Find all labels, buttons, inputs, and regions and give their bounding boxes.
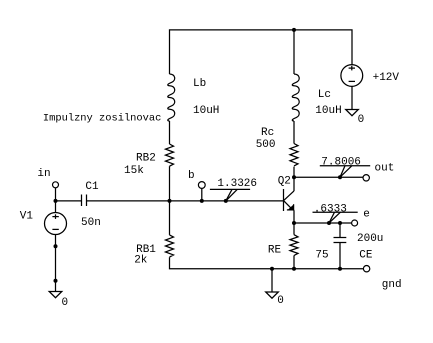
probe reading 1.3326 at base [210,178,257,203]
svg-text:15k: 15k [124,165,144,177]
terminal b (open circle) [198,182,205,189]
junction dot V1 ground net [54,279,58,283]
capacitor C1 [82,195,87,207]
junction dot base rail / RB divider [168,199,172,203]
terminal e (open circle) [352,220,358,226]
junction dot b node [200,199,204,203]
wire RB2 bottom to base rail [169,166,171,201]
svg-text:Impulzny zosilnovac: Impulzny zosilnovac [43,113,161,125]
junction dot RE bottom [292,267,296,271]
resistor RB2 [166,144,174,166]
wire emitter node to e terminal [294,222,352,224]
probe reading 7.8006 at out [320,156,370,179]
svg-text:500: 500 [256,139,276,151]
svg-text:Q2: Q2 [278,175,291,187]
ground symbol V1 (0) [49,292,62,298]
wire Rc bottom to collector node [293,167,295,191]
svg-text:CE: CE [359,250,373,262]
wire top rail to Lc [293,30,295,74]
inductor Lb [168,74,175,121]
wire emitter node down to RE [293,223,295,235]
wire C1 right plate to Q2 base [87,200,284,202]
svg-text:10uH: 10uH [315,105,341,117]
source V1 (circle with +/-) [45,201,67,292]
svg-text:+12V: +12V [373,72,400,84]
wire in-terminal stub to node [55,188,57,201]
junction dot V1 bottom pin [54,244,58,248]
svg-text:RB2: RB2 [136,153,156,165]
wire +12V bottom to ground [351,86,353,109]
svg-text:Lb: Lb [193,78,206,90]
svg-text:Rc: Rc [261,127,274,139]
terminal in (open circle) [53,182,59,188]
wire top rail from Lb top-left corner to +12V corner [170,30,353,74]
wire collector to out terminal [294,176,363,178]
wire RE bottom to ground rail [293,256,295,269]
wire b stub [201,188,203,201]
svg-text:0: 0 [277,295,284,307]
svg-text:in: in [37,168,50,180]
svg-text:0: 0 [358,114,365,126]
svg-text:e: e [363,209,370,221]
svg-text:b: b [188,170,195,182]
junction dot collector node [292,175,296,179]
resistor Rc [290,144,298,166]
junction dot CE bottom [338,267,342,271]
terminal out (open circle) [363,175,369,181]
inductor Lc [292,74,299,121]
wire ground tap stub [271,269,273,292]
capacitor CE [334,221,347,269]
resistor RB1 [166,235,174,257]
junction dot emitter node [292,221,296,225]
ground symbol +12V (0) [346,110,359,116]
transistor Q2 [284,189,295,223]
junction dot ground tap [270,267,274,271]
ground symbol center (0) [266,292,279,298]
svg-text:RE: RE [268,245,282,257]
svg-text:V1: V1 [20,211,34,223]
junction dot top rail at Lc branch [292,28,296,32]
svg-text:1.3326: 1.3326 [217,178,257,190]
wire Lc bottom to Rc top [293,121,295,144]
svg-text:200u: 200u [357,233,383,245]
svg-text:gnd: gnd [382,279,402,291]
svg-text:C1: C1 [85,181,99,193]
svg-text:Lc: Lc [318,89,331,101]
wire input node to C1 left plate [56,200,82,202]
resistor RE [290,235,298,256]
junction dot input node [54,199,58,203]
wire RB1 bottom to ground rail [170,257,364,269]
wire Lb bottom to RB2 top [169,121,171,144]
svg-text:75: 75 [315,250,328,262]
terminal gnd (open circle) [363,266,369,272]
svg-text:7.8006: 7.8006 [321,156,361,168]
svg-text:0: 0 [62,297,69,309]
source +12V (circle with +/-) [341,65,363,87]
svg-text:.6333: .6333 [314,204,347,216]
svg-text:50n: 50n [81,217,101,229]
svg-text:2k: 2k [134,255,148,267]
svg-text:out: out [375,163,395,175]
wire base rail RB1 to RB1 top [169,201,171,235]
probe reading .6333 at e [313,204,358,226]
svg-text:10uH: 10uH [193,105,219,117]
